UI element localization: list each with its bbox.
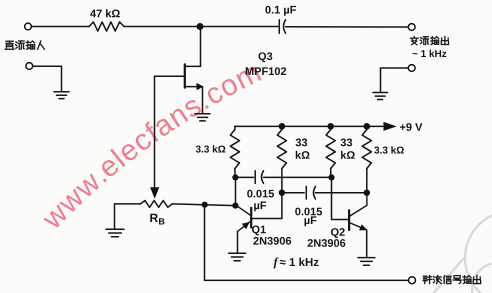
node line1 left	[232, 174, 238, 180]
gate lead	[155, 75, 185, 77]
label 0.015 first	[247, 190, 274, 198]
wire gate to RB wiper	[154, 76, 156, 188]
transistor Q1 2N3906	[235, 193, 282, 232]
watermark www.elecfans.com	[43, 67, 261, 228]
label Q2	[331, 228, 345, 238]
resistor 33 kΩ second	[326, 130, 335, 169]
label +9 V	[400, 123, 422, 131]
base wire from line2	[252, 193, 282, 219]
potentiometer RB	[115, 203, 141, 205]
emitter	[238, 221, 252, 232]
label 斩波信号输出	[423, 276, 431, 284]
wire source to ground	[202, 87, 204, 113]
+9V rail	[235, 125, 387, 127]
label 3.3 kΩ right	[374, 146, 404, 153]
wire to ground	[33, 66, 62, 91]
wire chopper output	[205, 205, 409, 281]
label 47 kΩ	[90, 9, 120, 17]
wire emitter to ground	[366, 230, 368, 257]
resistor 3.3 kΩ left	[230, 130, 239, 169]
capacitor 0.1 µF	[278, 20, 280, 33]
channel bar	[184, 64, 186, 87]
label ~ 1 kHz	[412, 50, 446, 57]
terminal AC output	[408, 24, 415, 31]
terminal DC input top	[25, 23, 32, 30]
emitter arrow	[359, 224, 367, 230]
ground	[358, 258, 375, 266]
label 33 kΩ first (kΩ)	[296, 151, 310, 159]
transistor Q3 MPF102 JFET	[155, 27, 201, 88]
label 2N3906 second	[308, 239, 346, 247]
node drain junction	[197, 23, 204, 30]
terminal chopper output	[409, 277, 416, 284]
ground	[106, 229, 124, 237]
emitter	[349, 223, 366, 230]
label 33 kΩ second (kΩ)	[341, 151, 355, 159]
base wire from line1	[332, 177, 349, 220]
emitter arrow (points to base)	[242, 222, 250, 229]
label 2N3906 first	[253, 237, 291, 245]
capacitor 0.015 µF second	[305, 186, 307, 199]
label 交流输出	[410, 36, 418, 44]
ground	[373, 93, 388, 100]
resistor 3.3 kΩ right	[362, 130, 371, 169]
wire R1 to cap	[124, 26, 278, 28]
coupling line 1	[235, 176, 254, 178]
label RB	[150, 214, 158, 222]
collector	[349, 193, 367, 217]
base bar	[250, 208, 252, 228]
coupling line 2 (thick)	[282, 192, 304, 194]
node RB output	[202, 202, 208, 208]
label 3.3 kΩ left	[196, 145, 226, 152]
wire RB to ground	[114, 204, 116, 229]
label µF first	[254, 202, 266, 212]
label 33 kΩ second (33)	[341, 139, 353, 147]
wire R1 bottom to Q1 collector node	[235, 177, 237, 206]
wire drain	[200, 27, 202, 67]
label Q3	[258, 52, 272, 62]
wire emitter to ground	[237, 231, 239, 253]
wire cap to AC out	[286, 26, 409, 28]
ground	[229, 253, 246, 261]
terminal DC input lower	[26, 63, 33, 70]
base bar	[348, 210, 350, 230]
node rail dots	[279, 123, 286, 130]
label 33 kΩ first (33)	[296, 139, 308, 147]
wiper arrow	[150, 187, 159, 198]
label 直流输入	[5, 41, 14, 49]
transistor Q2 2N3906	[332, 177, 367, 230]
label Q1	[252, 226, 266, 236]
resistor 47 kΩ	[89, 22, 124, 31]
arrow +9V	[384, 122, 397, 131]
label MPF102	[246, 67, 286, 75]
wire input to R1	[32, 26, 90, 28]
terminal AC output ground side	[408, 65, 415, 72]
label f ≈ 1 kHz	[274, 258, 279, 269]
label 0.015 second	[295, 208, 322, 216]
watermark logo arc bottom right	[434, 211, 492, 293]
ground	[54, 92, 69, 99]
node line1 right	[328, 174, 334, 180]
collector	[235, 205, 251, 216]
label µF second	[305, 216, 317, 226]
wire to ground	[381, 68, 409, 92]
source lead	[185, 86, 197, 88]
capacitor 0.015 µF first	[254, 171, 256, 184]
ground	[195, 114, 210, 121]
node Q1 collector	[232, 203, 238, 209]
label 0.1 µF	[265, 6, 296, 16]
resistor 33 kΩ first	[277, 130, 286, 169]
